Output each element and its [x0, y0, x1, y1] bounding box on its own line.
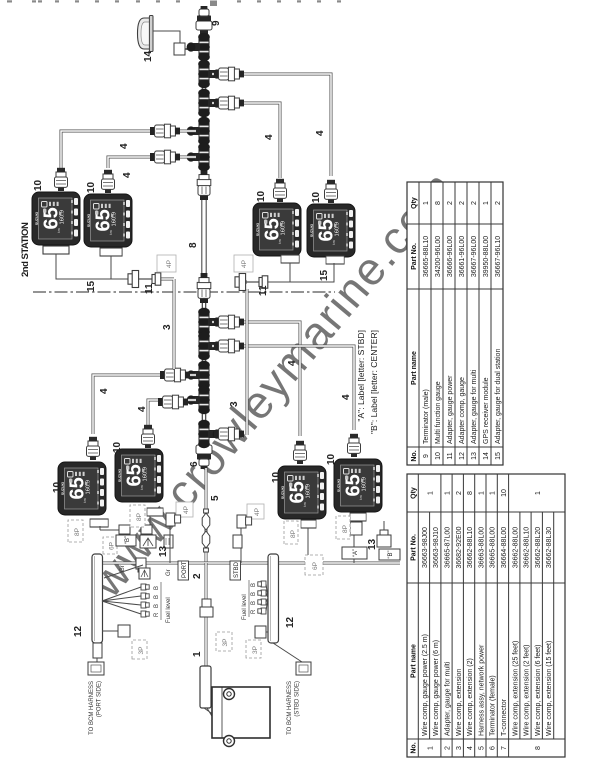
- inline connector on junction: [136, 558, 146, 569]
- svg-text:No.: No.: [411, 450, 418, 461]
- svg-text:Wire comp, gauge power (2.5 m): Wire comp, gauge power (2.5 m): [422, 634, 429, 736]
- station divider dash-dot line: [33, 291, 335, 293]
- svg-text:6P: 6P: [312, 562, 319, 570]
- svg-text:10: 10: [52, 481, 63, 493]
- gauge G4 bracket: [326, 256, 344, 264]
- svg-text:8: 8: [467, 491, 474, 495]
- svg-text:4P: 4P: [241, 260, 248, 268]
- wire 4 from T8 to gauge G5: [93, 375, 196, 434]
- svg-text:Part name: Part name: [411, 644, 418, 678]
- svg-text:4: 4: [264, 134, 275, 140]
- wire square to T1: [185, 48, 198, 50]
- adapter 15/11 left (dual station power): [128, 271, 161, 288]
- svg-text:39950-88L00: 39950-88L00: [483, 236, 490, 277]
- battery terminal 1: [224, 689, 235, 700]
- 3P connector below STBD bar: [255, 626, 266, 638]
- gauge G3 bracket: [281, 255, 299, 263]
- svg-text:4: 4: [287, 360, 298, 366]
- svg-text:Adapter, gauge for dual statio: Adapter, gauge for dual station: [495, 349, 502, 444]
- 8P connector box (G7): [284, 521, 298, 544]
- wire 4 from T6 to gauge G7: [212, 322, 300, 436]
- gauge G6 with pigtail: [115, 449, 163, 502]
- svg-text:12: 12: [73, 625, 84, 637]
- svg-text:8: 8: [188, 242, 199, 248]
- 8P connector box (G5): [68, 520, 83, 542]
- gauge G4 with pigtail: [307, 204, 355, 257]
- svg-text:Wire comp, extension (25 feet): Wire comp, extension (25 feet): [512, 641, 519, 736]
- T-connector T1 (GPS branch, up): [187, 33, 210, 61]
- wire 15 left: brackets G1/G2 to adapter 11: [56, 254, 128, 279]
- svg-text:7: 7: [501, 746, 508, 750]
- svg-text:12: 12: [459, 452, 466, 460]
- svg-text:4P: 4P: [166, 260, 173, 268]
- gauge G2 bracket: [100, 248, 122, 256]
- svg-text:3P: 3P: [222, 639, 229, 647]
- junction bus (PORT/STBD distribution): [97, 562, 400, 565]
- svg-text:2: 2: [456, 491, 463, 495]
- battery: [212, 687, 270, 738]
- svg-text:STBD: STBD: [234, 561, 240, 578]
- wire 8 thin section: [201, 198, 208, 282]
- svg-text:Qty: Qty: [411, 197, 418, 209]
- svg-text:10: 10: [112, 441, 123, 453]
- wire 15 right: brackets G3/G4 to adapter 11: [268, 263, 334, 282]
- inline connector A (wire8 right end): [197, 170, 211, 200]
- svg-text:14: 14: [483, 452, 490, 460]
- wire 4 from T7 to gauge G8: [212, 346, 354, 430]
- svg-text:2: 2: [495, 201, 502, 205]
- svg-text:15: 15: [86, 280, 97, 292]
- svg-text:6P: 6P: [109, 542, 116, 550]
- svg-text:B: B: [251, 583, 257, 587]
- 3P connector below PORT bar: [102, 630, 120, 632]
- STBD label box: [230, 561, 241, 580]
- svg-text:4P: 4P: [183, 506, 190, 514]
- svg-text:5: 5: [210, 495, 221, 501]
- gauge sub-harness 13 left cluster: [100, 516, 150, 530]
- svg-text:"B": Label [letter: CENTER]: "B": Label [letter: CENTER]: [369, 330, 379, 434]
- wire 3 (left): adapter 11 to T8 barrel: [161, 279, 174, 369]
- 3P dashed box (wire 1): [216, 632, 232, 651]
- svg-text:2: 2: [447, 201, 454, 205]
- svg-text:TO BCM HARNESS: TO BCM HARNESS: [287, 681, 293, 735]
- Y-harness box: [140, 535, 156, 548]
- svg-text:12: 12: [285, 616, 296, 628]
- battery terminal 2: [224, 736, 235, 747]
- svg-text:36664-88L00: 36664-88L00: [501, 527, 508, 568]
- svg-text:2: 2: [471, 201, 478, 205]
- 4P dashed box (left adapter): [157, 255, 176, 272]
- svg-text:“A”: “A”: [353, 549, 359, 557]
- svg-text:9: 9: [211, 20, 222, 26]
- svg-text:Fuel level: Fuel level: [166, 597, 172, 623]
- svg-text:9: 9: [423, 454, 430, 458]
- svg-text:Multi function gauge: Multi function gauge: [435, 381, 442, 444]
- gauge G3 with pigtail: [253, 203, 301, 256]
- svg-text:4: 4: [99, 388, 110, 394]
- svg-text:13: 13: [471, 452, 478, 460]
- svg-text:Wire comp, extension (2 feet): Wire comp, extension (2 feet): [524, 645, 531, 736]
- wire 4 from T3 to gauge G3: [212, 103, 280, 178]
- svg-text:Adapter, gauge for multi: Adapter, gauge for multi: [471, 369, 478, 444]
- svg-text:1: 1: [478, 491, 485, 495]
- svg-text:36662-88L30: 36662-88L30: [546, 527, 553, 568]
- svg-text:Adapter, gauge for multi: Adapter, gauge for multi: [445, 661, 452, 736]
- svg-text:10: 10: [86, 181, 97, 193]
- svg-text:1: 1: [423, 201, 430, 205]
- svg-text:Part No.: Part No.: [411, 243, 418, 270]
- T-connector T6 (branch down): [198, 308, 221, 336]
- svg-text:8P: 8P: [136, 513, 143, 521]
- B label box (right): [379, 549, 400, 560]
- svg-text:1: 1: [535, 491, 542, 495]
- adapter 15/11 right: [235, 274, 268, 291]
- svg-text:36665-88L10: 36665-88L10: [423, 236, 430, 277]
- BCM connector PORT: [93, 643, 102, 658]
- gauge G5 with pigtail: [58, 462, 106, 515]
- svg-text:Gr: Gr: [166, 569, 172, 576]
- svg-text:10: 10: [311, 191, 322, 203]
- GPS connector square: [174, 43, 185, 55]
- svg-text:36663-88L00: 36663-88L00: [478, 527, 485, 568]
- svg-text:4: 4: [315, 130, 326, 136]
- svg-text:B: B: [251, 601, 257, 605]
- svg-text:R: R: [251, 609, 257, 614]
- wire 1: junction to battery: [205, 563, 208, 666]
- svg-text:2: 2: [192, 573, 203, 579]
- svg-text:10: 10: [256, 190, 267, 202]
- svg-text:36661-96L00: 36661-96L00: [459, 236, 466, 277]
- svg-text:1: 1: [427, 746, 434, 750]
- wire 4 from T5 to gauge G2: [108, 157, 196, 168]
- svg-text:14: 14: [143, 50, 154, 62]
- 8P connector box (G6): [130, 505, 145, 527]
- svg-text:3: 3: [162, 324, 173, 330]
- gauge G8 bracket: [350, 513, 366, 521]
- wire 4 from T2 to gauge G4: [212, 74, 331, 176]
- svg-text:8P: 8P: [290, 530, 297, 538]
- svg-text:13: 13: [367, 538, 378, 550]
- svg-text:4P: 4P: [254, 508, 261, 516]
- svg-text:36666-96L00: 36666-96L00: [447, 236, 454, 277]
- gauge G7 bracket: [301, 520, 316, 528]
- T-connector T10 (branch down): [198, 420, 221, 448]
- svg-text:36663-98J10: 36663-98J10: [433, 527, 440, 568]
- B label box: [116, 535, 136, 546]
- svg-text:B: B: [251, 592, 257, 596]
- svg-text:(PORT SIDE): (PORT SIDE): [97, 681, 103, 717]
- svg-text:10: 10: [435, 452, 442, 460]
- svg-text:1: 1: [445, 491, 452, 495]
- gauge G6 bracket: [147, 508, 163, 516]
- svg-text:36667-96L00: 36667-96L00: [471, 236, 478, 277]
- T-connector T5 (branch up to gauge): [187, 143, 210, 171]
- svg-text:4: 4: [467, 746, 474, 750]
- T-connector T4 (branch up to gauge): [187, 117, 210, 145]
- svg-text:36667-96L10: 36667-96L10: [495, 236, 502, 277]
- svg-text:Adapter, gauge power: Adapter, gauge power: [447, 375, 454, 444]
- harness 12 STBD side bar: [268, 554, 279, 643]
- svg-text:36665-88L00: 36665-88L00: [490, 527, 497, 568]
- wire 3 (right): adapter 11 to T10 barrel: [236, 282, 247, 435]
- gauge sub-harness right cluster: [308, 521, 354, 563]
- 8P connector box (G8): [336, 516, 350, 539]
- svg-text:Wire comp, extension (2): Wire comp, extension (2): [467, 658, 474, 736]
- svg-text:B: B: [154, 595, 160, 599]
- svg-text:TO BCM HARNESS: TO BCM HARNESS: [89, 681, 95, 735]
- fuel level fan STBD: [266, 584, 268, 611]
- svg-text:10: 10: [326, 453, 337, 465]
- T-connector T8 (branch up): [187, 361, 210, 389]
- svg-text:4: 4: [119, 143, 130, 149]
- svg-text:11: 11: [144, 283, 155, 294]
- small Y-split box on junction: [139, 568, 150, 579]
- svg-text:10: 10: [501, 489, 508, 497]
- svg-text:“B”: “B”: [125, 536, 131, 544]
- svg-text:8: 8: [535, 746, 542, 750]
- svg-text:Part name: Part name: [411, 351, 418, 385]
- svg-text:Wire comp, extension: Wire comp, extension: [456, 669, 463, 736]
- svg-text:3P: 3P: [252, 646, 259, 654]
- svg-text:36682-92E00: 36682-92E00: [456, 526, 463, 568]
- svg-text:8P: 8P: [74, 528, 81, 536]
- svg-text:1: 1: [192, 651, 203, 657]
- harness 12 PORT side bar: [92, 554, 103, 643]
- svg-text:36662-88L20: 36662-88L20: [535, 527, 542, 568]
- 4P dashed box (right adapter): [234, 255, 253, 272]
- svg-text:2: 2: [459, 201, 466, 205]
- diagonal branch wire at junction: [104, 565, 143, 578]
- svg-text:2nd STATION: 2nd STATION: [20, 222, 31, 277]
- wire GPS to connector square: [153, 31, 180, 43]
- svg-text:36662-88L10: 36662-88L10: [524, 527, 531, 568]
- svg-text:5: 5: [478, 746, 485, 750]
- svg-text:(STBD SIDE): (STBD SIDE): [295, 681, 301, 717]
- T-connector T9 (branch up): [187, 386, 210, 414]
- svg-text:T-connector: T-connector: [501, 698, 508, 736]
- svg-text:3: 3: [456, 746, 463, 750]
- svg-text:15: 15: [495, 452, 502, 460]
- wire 5 harness assy network power: [205, 468, 208, 563]
- svg-text:Harness assy, network power: Harness assy, network power: [478, 644, 485, 736]
- svg-text:B: B: [154, 604, 160, 608]
- connector above B: [377, 535, 391, 547]
- svg-text:34200-96L00: 34200-96L00: [435, 236, 442, 277]
- svg-text:Wire comp, extension (15 feet): Wire comp, extension (15 feet): [546, 641, 553, 736]
- svg-text:3P: 3P: [138, 647, 145, 655]
- svg-text:2: 2: [445, 746, 452, 750]
- svg-text:6: 6: [490, 746, 497, 750]
- BCM connector STBD: [273, 643, 302, 662]
- T-connector T2 (branch down to gauge): [198, 60, 221, 88]
- 3P connector on wire 1: [200, 599, 213, 617]
- A label box: [342, 547, 367, 559]
- gauge G1 bracket: [43, 246, 69, 254]
- terminator 6 (female, left end of trunk): [196, 441, 212, 469]
- 4P dashed boxes + adapter 12 (main station): [176, 502, 193, 517]
- sub connectors: [119, 525, 130, 534]
- svg-text:11: 11: [258, 285, 269, 296]
- svg-text:No.: No.: [411, 742, 418, 753]
- T-connector T7 (branch down): [198, 332, 221, 360]
- gauge G2 with pigtail: [84, 194, 132, 247]
- T10 branch barrel: [214, 427, 244, 441]
- svg-text:Fuel level: Fuel level: [242, 594, 248, 620]
- GPS receiver module 14: [138, 16, 154, 52]
- svg-text:4: 4: [341, 394, 352, 400]
- svg-text:"A": Label [letter: STBD]: "A": Label [letter: STBD]: [356, 330, 366, 422]
- svg-text:15: 15: [319, 269, 330, 281]
- gauge G1 with pigtail: [32, 192, 80, 245]
- svg-text:Wire comp, extension (6 feet): Wire comp, extension (6 feet): [535, 645, 542, 736]
- PVC tag box: [164, 535, 173, 548]
- svg-text:“B”: “B”: [388, 551, 394, 559]
- cropped text marks at page right edge: [7, 0, 341, 6]
- svg-text:10: 10: [271, 471, 282, 483]
- fuse holder on wire 1: [200, 666, 211, 708]
- svg-text:4: 4: [137, 406, 148, 412]
- wire 4 from T9 to gauge G6: [148, 400, 196, 426]
- svg-text:36663-98J00: 36663-98J00: [422, 527, 429, 568]
- svg-text:PORT: PORT: [182, 561, 188, 578]
- NMEA trunk backbone: [202, 20, 207, 458]
- svg-text:36662-88L00: 36662-88L00: [512, 527, 519, 568]
- T-connector T3 (branch down to gauge): [198, 89, 221, 117]
- terminator 9 (male, right end of trunk): [196, 6, 212, 34]
- svg-text:Qty: Qty: [411, 487, 418, 499]
- svg-text:Terminator (male): Terminator (male): [423, 389, 430, 444]
- svg-text:Adapter comp, gauge: Adapter comp, gauge: [459, 377, 466, 444]
- gauge G5 bracket: [90, 519, 108, 527]
- svg-text:GPS receiver module: GPS receiver module: [483, 377, 490, 444]
- svg-text:11: 11: [447, 452, 454, 459]
- svg-text:6: 6: [189, 461, 200, 467]
- fuel level fan PORT: [102, 587, 141, 614]
- gauge G7 with pigtail: [278, 466, 326, 519]
- svg-text:Part No.: Part No.: [411, 534, 418, 561]
- inline connector B (wire8 left end): [197, 273, 211, 303]
- svg-text:36662-88L10: 36662-88L10: [467, 527, 474, 568]
- svg-text:R: R: [154, 612, 160, 617]
- svg-text:1: 1: [490, 491, 497, 495]
- PORT label box: [178, 561, 189, 580]
- svg-text:10: 10: [33, 179, 44, 191]
- svg-text:B: B: [154, 586, 160, 590]
- wire 4 from T4 to gauge G1: [61, 131, 196, 168]
- svg-text:13: 13: [158, 545, 169, 557]
- wire 5 inline holder: [202, 509, 210, 552]
- leads to battery terminals: [204, 708, 224, 736]
- svg-text:8: 8: [435, 201, 442, 205]
- svg-text:3: 3: [229, 401, 240, 407]
- gauge G8 with pigtail: [334, 459, 382, 512]
- svg-text:36665-87L00: 36665-87L00: [445, 527, 452, 568]
- svg-text:Terminator (female): Terminator (female): [490, 675, 497, 736]
- svg-text:1: 1: [483, 201, 490, 205]
- svg-text:8P: 8P: [342, 525, 349, 533]
- svg-text:1: 1: [427, 491, 434, 495]
- svg-text:Wire comp, gauge power (6 m): Wire comp, gauge power (6 m): [433, 640, 440, 736]
- svg-text:4: 4: [122, 172, 133, 178]
